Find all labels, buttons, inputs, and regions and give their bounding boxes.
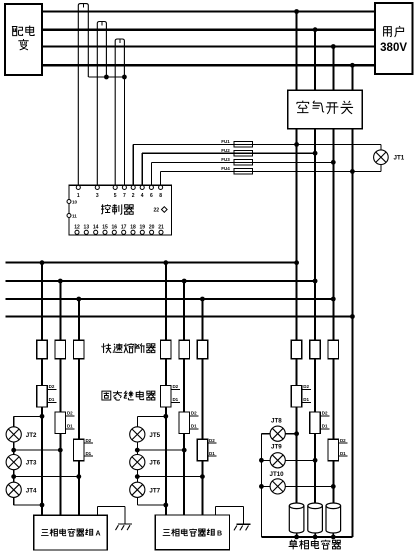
svg-text:D2: D2 bbox=[67, 411, 73, 416]
CT TA1 bbox=[78, 4, 88, 186]
svg-text:D1: D1 bbox=[209, 451, 215, 456]
fuse: single-phase fast-fuse 2 bbox=[310, 340, 321, 358]
relay: SSR A3 bbox=[74, 438, 94, 461]
wire: capacitor neutral bus bbox=[261, 536, 352, 538]
svg-text:4: 4 bbox=[141, 193, 144, 199]
wire: phase B drop bbox=[314, 30, 316, 503]
lamp JT7 bbox=[130, 482, 161, 497]
wire: bus N bbox=[42, 64, 375, 66]
fuse FU4 bbox=[221, 166, 252, 174]
capacitor C3 (single-phase) bbox=[326, 503, 341, 537]
box: controller U1 bbox=[69, 185, 172, 235]
svg-text:A: A bbox=[96, 530, 101, 537]
relay: SSR C1 bbox=[291, 384, 311, 407]
svg-text:17: 17 bbox=[121, 224, 127, 230]
svg-text:20: 20 bbox=[149, 224, 155, 230]
svg-text:JT7: JT7 bbox=[149, 487, 160, 494]
wire: lamp common bbox=[260, 434, 262, 537]
svg-text:FU4: FU4 bbox=[221, 166, 230, 171]
wire: bank B phase 1 bbox=[165, 263, 167, 516]
wire: bus L2 bbox=[42, 29, 375, 31]
controller top pins 1-8 bbox=[76, 185, 162, 198]
svg-text:D1: D1 bbox=[191, 424, 197, 429]
box: capacitor bank B bbox=[155, 515, 229, 550]
svg-text:380V: 380V bbox=[380, 42, 407, 54]
label: bank B bbox=[163, 529, 222, 538]
svg-text:D1: D1 bbox=[340, 451, 346, 456]
relay: SSR C3 bbox=[328, 438, 348, 461]
lamp JT4 bbox=[6, 482, 37, 497]
svg-text:6: 6 bbox=[150, 193, 153, 199]
svg-text:JT9: JT9 bbox=[271, 444, 282, 451]
box: distribution transformer bbox=[5, 4, 42, 75]
svg-text:18: 18 bbox=[130, 224, 136, 230]
svg-text:D2: D2 bbox=[172, 384, 178, 389]
wire: distribution line 3 bbox=[5, 298, 333, 300]
label: fast fuse bbox=[102, 343, 156, 353]
svg-text:D2: D2 bbox=[322, 411, 328, 416]
fuse FU2 bbox=[221, 148, 252, 156]
svg-text:13: 13 bbox=[84, 224, 90, 230]
svg-text:JT10: JT10 bbox=[270, 471, 285, 478]
svg-text:JT6: JT6 bbox=[149, 460, 160, 467]
fuse FU3 bbox=[221, 157, 252, 165]
ground: bank A bbox=[97, 507, 132, 530]
lamp JT5 bbox=[130, 427, 161, 442]
lamp JT2 bbox=[6, 427, 37, 442]
wire: voltage sense 1 bbox=[133, 144, 381, 185]
svg-text:5: 5 bbox=[114, 193, 117, 199]
svg-text:B: B bbox=[217, 530, 222, 537]
label: single-phase capacitor bbox=[289, 540, 341, 550]
fuse: bank A fast-fuse 1 bbox=[37, 340, 48, 358]
svg-text:16: 16 bbox=[112, 224, 118, 230]
label: controller bbox=[101, 204, 134, 214]
svg-text:8: 8 bbox=[159, 193, 162, 199]
box: air switch bbox=[288, 90, 363, 129]
svg-text:JT1: JT1 bbox=[394, 155, 405, 162]
label: user bbox=[380, 26, 407, 54]
ground: bank B bbox=[216, 506, 251, 530]
svg-text:22: 22 bbox=[154, 208, 160, 214]
svg-text:D2: D2 bbox=[85, 438, 91, 443]
fuse: single-phase fast-fuse 3 bbox=[328, 340, 339, 358]
svg-text:D2: D2 bbox=[340, 438, 346, 443]
svg-text:D1: D1 bbox=[303, 397, 309, 402]
fuse: bank A fast-fuse 2 bbox=[55, 340, 66, 358]
svg-text:FU3: FU3 bbox=[221, 157, 230, 162]
svg-text:21: 21 bbox=[158, 224, 164, 230]
label: bank A bbox=[41, 529, 100, 538]
svg-text:7: 7 bbox=[123, 193, 126, 199]
svg-text:D1: D1 bbox=[49, 397, 55, 402]
svg-text:12: 12 bbox=[74, 224, 80, 230]
controller left pins 10-11 bbox=[67, 200, 78, 219]
fuse: bank B fast-fuse 2 bbox=[179, 340, 190, 358]
svg-text:D1: D1 bbox=[172, 397, 178, 402]
wire: JT1 leads bbox=[380, 144, 382, 171]
wire: voltage sense 3 bbox=[151, 162, 333, 185]
wire: voltage sense 4 bbox=[161, 171, 381, 185]
relay: SSR A1 bbox=[37, 384, 57, 407]
relay: SSR B2 bbox=[179, 411, 199, 434]
svg-text:2: 2 bbox=[132, 193, 135, 199]
label: distribution transformer bbox=[12, 25, 34, 49]
relay: SSR B3 bbox=[197, 438, 217, 461]
svg-text:FU1: FU1 bbox=[221, 139, 230, 144]
box: user 380V bbox=[375, 3, 413, 74]
wire: distribution line 2 bbox=[5, 280, 315, 282]
wire: bank B phase 3 bbox=[201, 299, 203, 515]
svg-text:D2: D2 bbox=[303, 384, 309, 389]
wire: phase C drop bbox=[332, 47, 334, 504]
lamp JT3 bbox=[6, 455, 37, 470]
svg-text:D1: D1 bbox=[322, 424, 328, 429]
svg-text:15: 15 bbox=[102, 224, 108, 230]
wire: distribution line 1 bbox=[5, 262, 296, 264]
fuse: bank B fast-fuse 3 bbox=[197, 340, 208, 358]
box: capacitor bank A bbox=[34, 515, 108, 550]
svg-text:1: 1 bbox=[77, 193, 80, 199]
CT TA3 bbox=[115, 39, 124, 185]
fuse: bank B fast-fuse 1 bbox=[161, 340, 172, 358]
fuse: single-phase fast-fuse 1 bbox=[291, 340, 302, 358]
lamp JT1 bbox=[374, 150, 405, 165]
controller right pin 22 bbox=[154, 207, 168, 214]
svg-text:JT8: JT8 bbox=[271, 417, 282, 424]
label: air switch bbox=[297, 101, 353, 114]
lamp JT10 bbox=[270, 471, 286, 494]
svg-text:19: 19 bbox=[140, 224, 146, 230]
wire: bank A phase 3 bbox=[78, 299, 80, 515]
fuse FU1 bbox=[221, 139, 252, 147]
lamp JT9 bbox=[270, 444, 285, 468]
CT TA2 bbox=[97, 22, 106, 186]
capacitor C2 (single-phase) bbox=[308, 503, 323, 537]
wire: JT10 tap bbox=[261, 485, 333, 487]
svg-text:D2: D2 bbox=[49, 384, 55, 389]
lamp JT6 bbox=[130, 455, 161, 470]
capacitor C1 (single-phase) bbox=[289, 503, 304, 537]
wire: bank B phase 2 bbox=[183, 281, 185, 515]
wire: bus L3 bbox=[42, 45, 375, 47]
wire: JT9 tap bbox=[261, 459, 315, 461]
wire: voltage sense 2 bbox=[142, 153, 315, 185]
relay: SSR B1 bbox=[161, 384, 181, 407]
wire: bank B lamp chain bbox=[137, 416, 202, 505]
wire: bank A lamp chain bbox=[14, 416, 79, 505]
svg-text:D2: D2 bbox=[191, 411, 197, 416]
wire: CT common bbox=[88, 77, 124, 185]
controller bottom pins 12-21 bbox=[74, 224, 164, 234]
svg-text:3: 3 bbox=[96, 193, 99, 199]
svg-text:JT3: JT3 bbox=[26, 460, 37, 467]
wire: phase A drop bbox=[296, 12, 298, 504]
svg-text:10: 10 bbox=[72, 200, 78, 205]
svg-text:FU2: FU2 bbox=[221, 148, 230, 153]
svg-text:D1: D1 bbox=[67, 424, 73, 429]
wire: neutral drop bbox=[351, 65, 353, 537]
svg-text:D1: D1 bbox=[85, 451, 91, 456]
relay: SSR C2 bbox=[310, 411, 330, 434]
svg-text:JT4: JT4 bbox=[26, 487, 37, 494]
lamp JT8 bbox=[270, 417, 285, 441]
wire: bank A phase 2 bbox=[59, 281, 61, 515]
svg-text:JT2: JT2 bbox=[26, 432, 37, 439]
svg-text:11: 11 bbox=[72, 214, 77, 219]
svg-text:14: 14 bbox=[93, 224, 99, 230]
relay: SSR A2 bbox=[55, 411, 75, 434]
wire: bus L1 bbox=[42, 10, 375, 12]
svg-text:D2: D2 bbox=[209, 438, 215, 443]
wire: bank A phase 1 bbox=[41, 263, 43, 516]
label: solid state relay bbox=[102, 391, 156, 400]
svg-text:JT5: JT5 bbox=[149, 432, 160, 439]
wire: distribution line 4 bbox=[5, 316, 352, 318]
wire: JT8 tap bbox=[261, 433, 296, 435]
fuse: bank A fast-fuse 3 bbox=[74, 340, 85, 358]
